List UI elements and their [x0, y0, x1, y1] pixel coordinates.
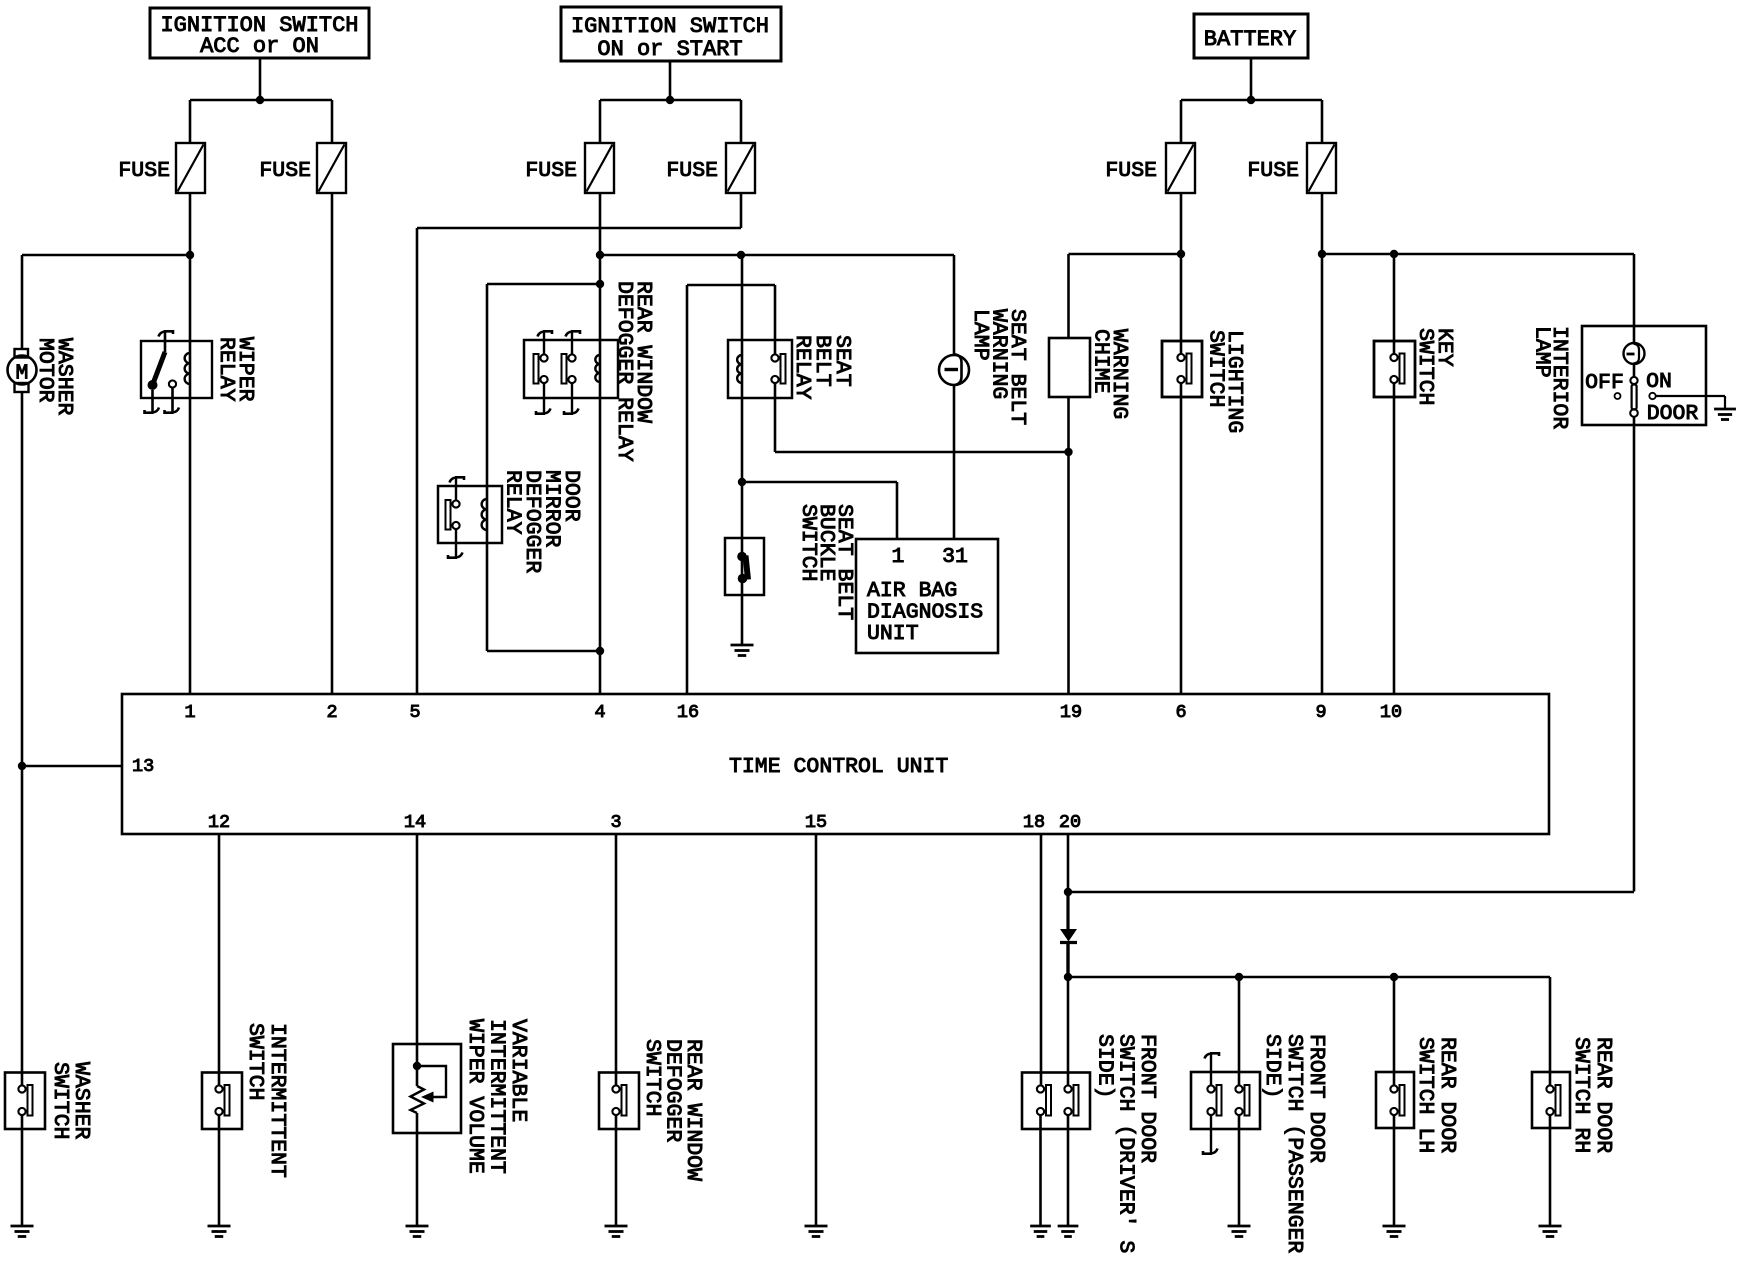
- svg-text:BATTERY: BATTERY: [1204, 27, 1296, 52]
- svg-text:DIAGNOSIS: DIAGNOSIS: [867, 601, 983, 625]
- svg-text:3: 3: [610, 812, 621, 833]
- svg-text:ON: ON: [1646, 370, 1672, 394]
- svg-text:19: 19: [1060, 702, 1082, 723]
- svg-text:WASHERMOTOR: WASHERMOTOR: [33, 338, 76, 416]
- svg-text:6: 6: [1175, 702, 1186, 723]
- svg-text:AIR BAG: AIR BAG: [867, 579, 957, 603]
- svg-text:FRONT DOORSWITCH (DRIVER' SSID: FRONT DOORSWITCH (DRIVER' SSIDE): [1092, 1034, 1159, 1253]
- svg-text:SEATBELTRELAY: SEATBELTRELAY: [790, 335, 854, 400]
- svg-text:FUSE: FUSE: [259, 159, 311, 183]
- svg-text:VARIABLEINTERMITTENTWIPER VOLU: VARIABLEINTERMITTENTWIPER VOLUME: [463, 1019, 530, 1174]
- svg-text:13: 13: [132, 756, 154, 777]
- svg-text:LIGHTINGSWITCH: LIGHTINGSWITCH: [1204, 330, 1247, 433]
- svg-text:REAR WINDOWDEFOGGER RELAY: REAR WINDOWDEFOGGER RELAY: [612, 281, 655, 462]
- svg-text:FUSE: FUSE: [1247, 159, 1299, 183]
- svg-text:FUSE: FUSE: [666, 159, 718, 183]
- svg-text:OFF: OFF: [1585, 371, 1624, 395]
- svg-text:INTERIORLAMP: INTERIORLAMP: [1530, 326, 1572, 429]
- svg-text:5: 5: [409, 702, 420, 723]
- svg-text:UNIT: UNIT: [867, 622, 919, 646]
- svg-text:M: M: [16, 362, 29, 386]
- svg-text:WARNINGCHIME: WARNINGCHIME: [1089, 329, 1132, 419]
- svg-text:14: 14: [404, 812, 426, 833]
- svg-text:FUSE: FUSE: [1105, 159, 1157, 183]
- svg-text:FUSE: FUSE: [118, 159, 170, 183]
- svg-text:REAR WINDOWDEFOGGERSWITCH: REAR WINDOWDEFOGGERSWITCH: [640, 1039, 705, 1181]
- svg-text:DOORMIRRORDEFOGGERRELAY: DOORMIRRORDEFOGGERRELAY: [501, 470, 584, 573]
- svg-text:20: 20: [1059, 812, 1081, 833]
- svg-text:12: 12: [208, 812, 230, 833]
- svg-text:DOOR: DOOR: [1647, 402, 1699, 426]
- svg-text:4: 4: [594, 702, 605, 723]
- svg-text:REAR DOORSWITCH LH: REAR DOORSWITCH LH: [1413, 1037, 1459, 1153]
- svg-text:ACC or ON: ACC or ON: [200, 34, 319, 59]
- svg-text:KEYSWITCH: KEYSWITCH: [1413, 328, 1456, 405]
- svg-text:WIPERRELAY: WIPERRELAY: [214, 337, 257, 402]
- svg-text:16: 16: [677, 702, 699, 723]
- svg-text:INTERMITTENTSWITCH: INTERMITTENTSWITCH: [243, 1023, 289, 1178]
- svg-text:IGNITION SWITCH: IGNITION SWITCH: [571, 14, 769, 39]
- svg-text:SEAT BELTWARNINGLAMP: SEAT BELTWARNINGLAMP: [968, 309, 1029, 425]
- svg-text:10: 10: [1380, 702, 1402, 723]
- svg-text:15: 15: [805, 812, 827, 833]
- svg-text:9: 9: [1315, 702, 1326, 723]
- svg-text:ON or START: ON or START: [597, 37, 742, 62]
- svg-text:18: 18: [1023, 812, 1045, 833]
- svg-text:2: 2: [326, 702, 337, 723]
- svg-text:1: 1: [892, 545, 905, 569]
- svg-text:REAR DOORSWITCH RH: REAR DOORSWITCH RH: [1569, 1037, 1615, 1153]
- svg-text:SEAT BELTBUCKLESWITCH: SEAT BELTBUCKLESWITCH: [796, 504, 856, 620]
- svg-text:1: 1: [184, 702, 195, 723]
- svg-text:TIME CONTROL UNIT: TIME CONTROL UNIT: [729, 755, 948, 779]
- svg-text:WASHERSWITCH: WASHERSWITCH: [48, 1062, 93, 1140]
- svg-text:31: 31: [942, 545, 968, 569]
- svg-text:FRONT DOORSWITCH (PASSENGERSID: FRONT DOORSWITCH (PASSENGERSIDE): [1260, 1034, 1328, 1253]
- svg-text:FUSE: FUSE: [525, 159, 577, 183]
